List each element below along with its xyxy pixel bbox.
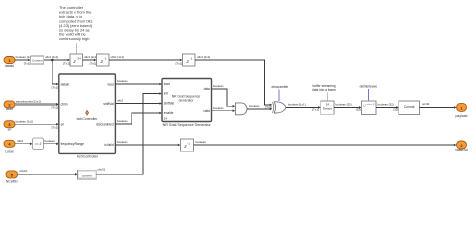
block Delays (Tapped Delay) [321,101,334,114]
wire NR data to AND top input [212,84,236,107]
svg-text:load: load [108,82,114,86]
wire en to bchController [15,119,59,129]
svg-text:payload: payload [456,114,468,118]
svg-text:NCellID: NCellID [6,179,18,183]
svg-text:[Tx1]: [Tx1] [90,61,97,65]
svg-text:Generator: Generator [179,99,195,103]
wire bch load to NR load [115,79,162,85]
svg-text:z: z [100,60,104,65]
svg-text:data into a frame: data into a frame [312,88,336,92]
svg-text:boolean: boolean [196,140,207,144]
annotation descramble [272,85,289,101]
wire Convert to z-24 [44,55,70,65]
svg-text:boolean: boolean [213,84,224,88]
svg-text:z: z [72,60,76,65]
svg-text:-1: -1 [104,57,107,61]
svg-text:init: init [164,92,168,96]
svg-text:datain: datain [61,82,70,86]
svg-text:(32): (32) [393,108,398,112]
svg-text:bchController: bchController [77,155,99,159]
svg-text:24: 24 [326,102,330,106]
svg-text:shiftVal: shiftVal [164,102,175,106]
svg-text:bchController: bchController [77,117,99,121]
svg-text:boolean: boolean [213,106,224,110]
wire NCellID to convert [18,169,78,175]
annotation deinterleave [360,84,378,100]
svg-text:ufix2: ufix2 [117,99,123,103]
svg-text:z: z [185,60,189,65]
delay z-24 [70,54,83,66]
svg-text:[Tx1]: [Tx1] [52,126,59,130]
XOR gate [273,102,287,113]
inport 1 datain [4,57,15,68]
wire Selector to Concat [376,103,399,112]
svg-text:descramble: descramble [272,85,289,89]
svg-text:[Tx1]: [Tx1] [63,61,70,65]
svg-text:ufix10: ufix10 [20,169,28,173]
wire bottom z-1 to validOut outport [194,140,457,146]
subsystem bchController U1 [59,74,116,153]
svg-text:continuously high: continuously high [59,36,89,41]
inport 3 en [4,121,15,132]
svg-text:en: en [8,127,12,131]
svg-text:boolean: boolean [117,79,128,83]
svg-text:data: data [204,87,210,91]
inport 5 NCellID [6,171,18,184]
delay z-1 bottom (valid delay) [181,139,194,151]
wire compare to bchController frequencyRange [44,139,59,145]
svg-text:Y: Y [373,103,375,107]
svg-text:ufix1 [1x1]: ufix1 [1x1] [111,55,124,59]
inport 4 Lmax [4,140,15,153]
outport 2 validOut [455,141,467,152]
wire z-1 to second z-1 [109,55,182,65]
svg-text:-24: -24 [77,57,82,61]
wire NR valid to AND bottom input [212,106,236,112]
svg-text:en: en [61,123,65,127]
svg-text:isValid: isValid [104,143,113,147]
wire datain to Convert [15,55,33,65]
delay z-1 second [183,54,196,66]
svg-text:24: 24 [164,117,168,121]
svg-text:shiftVal: shiftVal [103,102,114,106]
svg-text:NR Gold Sequence Generator: NR Gold Sequence Generator [163,123,212,127]
block compare == 2 [33,138,44,150]
annotation buffer streaming [312,84,336,101]
svg-text:boolean: boolean [45,139,56,143]
svg-text:load: load [164,82,170,86]
svg-text:boolean: boolean [117,140,128,144]
delay z-1 first [97,54,110,66]
svg-text:ufix1 [1x1]: ufix1 [1x1] [45,55,58,59]
subsystem NR Gold Sequence Generator U2 [162,79,212,122]
wire bch shiftVal to NR shiftVal [115,99,162,105]
wire Lmax to compare block [15,139,33,145]
block convert (bottom Data Type Conversion) [78,170,97,179]
svg-text:boolean: boolean [117,119,128,123]
svg-text:ufix1 [1x1]: ufix1 [1x1] [84,55,97,59]
svg-text:ctrlIn: ctrlIn [6,107,13,111]
svg-text:(32): (32) [356,108,361,112]
svg-text:Convert: Convert [32,58,43,62]
svg-text:frequencyRange: frequencyRange [61,142,85,146]
wire Concat to payload outport [420,102,457,109]
wire z-24 to z-1 [83,55,98,65]
wire bch isScrambled to NR enable [115,112,162,124]
svg-text:[Tx1]: [Tx1] [24,61,31,65]
svg-text:boolean (32): boolean (32) [378,103,394,107]
svg-text:validOut: validOut [455,148,467,152]
block Concat [399,101,420,115]
svg-text:z: z [183,145,187,150]
wire convert up to NR init [96,92,162,174]
svg-text:ufix31: ufix31 [98,168,106,172]
wire AND output to XOR bottom input [247,104,272,110]
svg-text:ctrlIn: ctrlIn [61,103,68,107]
svg-text:boolean (32): boolean (32) [336,103,352,107]
wire Delays to Selector [334,103,362,112]
wire XOR output to Delays [286,103,321,112]
svg-text:boolean [1x1]: boolean [1x1] [16,119,34,123]
svg-text:boolean [1x1]: boolean [1x1] [288,103,306,107]
svg-text:Delays: Delays [323,107,333,111]
wire second z-1 down to XOR top input [195,55,272,109]
block Convert (Data Type Conversion) [31,56,44,64]
svg-text:-1: -1 [187,142,190,146]
svg-text:[Tx1]: [Tx1] [176,61,183,65]
svg-text:Concat: Concat [404,105,415,109]
svg-text:ufix1 [1x1]: ufix1 [1x1] [197,55,210,59]
svg-text:deinterleave: deinterleave [360,84,378,88]
annotation note top-left [59,5,93,41]
svg-text:convert: convert [82,173,92,177]
svg-text:enable: enable [164,111,174,115]
svg-text:[Tx1]: [Tx1] [52,106,59,110]
svg-text:um32: um32 [422,102,430,106]
AND gate [235,103,247,115]
junction node after Convert [51,59,54,62]
inport 2 ctrlIn [4,101,15,111]
outport 1 payload [456,103,468,118]
annotation connector line to z-24 [75,44,77,54]
svg-text:ufix2: ufix2 [17,139,23,143]
svg-text:[Tx1]: [Tx1] [312,108,319,112]
wire branch down to bchController datain [52,60,59,89]
svg-text:boolean: boolean [249,104,260,108]
svg-text:U: U [363,103,365,107]
svg-text:Lmax: Lmax [5,149,14,153]
svg-text:[Tx1]: [Tx1] [52,85,59,89]
bus wire ctrlIn to bchController [15,99,59,109]
svg-text:samplecontrol [1x1]: samplecontrol [1x1] [16,99,41,103]
svg-text:== 2: == 2 [35,142,42,146]
svg-text:-1: -1 [190,57,193,61]
svg-text:datain: datain [5,64,14,68]
wire bch isValid to bottom z-1 [115,140,180,146]
svg-text:valid: valid [203,109,210,113]
svg-text:isScrambled: isScrambled [96,122,114,126]
block Selector [362,101,377,115]
